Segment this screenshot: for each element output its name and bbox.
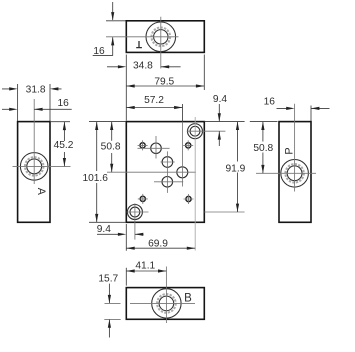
svg-text:16: 16 — [93, 46, 105, 57]
svg-text:31.8: 31.8 — [26, 84, 46, 95]
svg-text:41.1: 41.1 — [135, 261, 155, 272]
svg-text:B: B — [184, 293, 192, 305]
svg-text:15.7: 15.7 — [98, 274, 118, 285]
svg-text:9.4: 9.4 — [213, 94, 227, 105]
svg-text:34.8: 34.8 — [133, 61, 153, 72]
svg-text:57.2: 57.2 — [144, 95, 164, 106]
svg-text:50.8: 50.8 — [253, 143, 273, 154]
svg-text:79.5: 79.5 — [154, 76, 174, 87]
svg-text:91.9: 91.9 — [225, 163, 245, 174]
svg-text:9.4: 9.4 — [97, 224, 111, 235]
svg-text:50.8: 50.8 — [101, 142, 121, 153]
svg-text:P: P — [283, 147, 295, 154]
svg-text:69.9: 69.9 — [148, 238, 168, 249]
svg-text:16: 16 — [58, 98, 70, 109]
svg-text:A: A — [35, 188, 47, 196]
svg-text:45.2: 45.2 — [54, 140, 74, 151]
svg-text:101.6: 101.6 — [82, 173, 108, 184]
svg-text:16: 16 — [264, 97, 276, 108]
